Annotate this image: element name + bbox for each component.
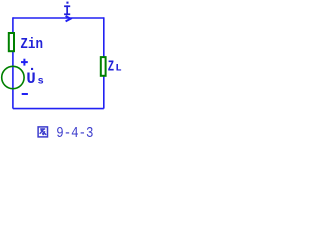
svg-text:9-4-3: 9-4-3 [56,125,93,142]
label ZL [108,59,122,76]
background [0,0,133,144]
wire: right segment (top corner through ZL to bottom) [103,17,105,108]
wire: bottom segment [13,108,104,110]
label Us (source voltage) [26,68,43,88]
source Us (circle) [2,66,24,88]
polarity minus [22,93,28,95]
impedance Zin (box) [9,33,14,51]
caption: hanzi "tu" (figure) glyph, hand drawn [38,127,47,137]
polarity plus [21,59,28,66]
svg-text:Z: Z [108,59,114,76]
svg-text:L: L [115,63,121,75]
label I (current) [64,2,70,16]
svg-text:U: U [26,70,35,88]
current arrow on top wire [66,16,71,22]
impedance ZL (box) [101,57,106,76]
wire: top segment [13,17,104,19]
svg-text:Zin: Zin [20,36,43,53]
wire: left segment (top corner to source, through Zin) [12,17,14,108]
svg-text:s: s [38,76,44,88]
